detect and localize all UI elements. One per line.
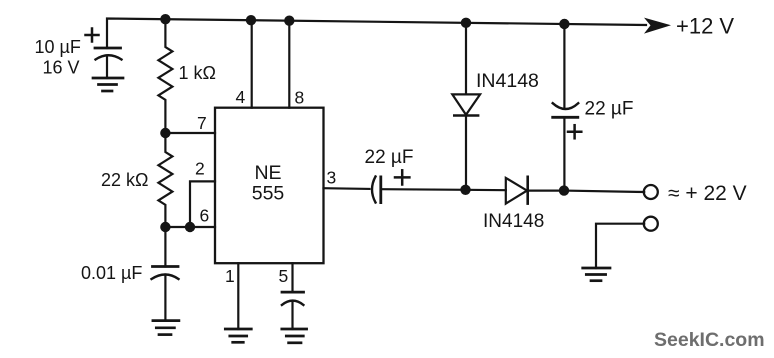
svg-text:IN4148: IN4148 (476, 70, 539, 92)
ground (93, 78, 123, 91)
wire pin 4 (251, 20, 253, 107)
ground (282, 329, 307, 343)
svg-text:22 µF: 22 µF (365, 147, 414, 168)
svg-text:16 V: 16 V (43, 58, 80, 78)
svg-text:+12 V: +12 V (676, 14, 734, 39)
node H rail to C5 (559, 19, 569, 29)
wire top rail +12V (107, 19, 646, 49)
svg-text:3: 3 (327, 168, 337, 188)
diode D2 IN4148 horizontal (466, 177, 565, 204)
svg-text:IN4148: IN4148 (483, 211, 544, 232)
svg-text:NE: NE (254, 162, 281, 184)
resistor R1 1k (158, 19, 172, 133)
svg-text:7: 7 (197, 113, 207, 133)
svg-text:≈ + 22 V: ≈ + 22 V (668, 182, 747, 205)
svg-text:555: 555 (252, 183, 285, 205)
wire output to terminal (564, 191, 644, 192)
node pin8 rail junction (284, 16, 294, 26)
svg-text:10 µF: 10 µF (35, 37, 81, 57)
svg-text:5: 5 (279, 266, 289, 286)
wire pin 6 (165, 226, 215, 228)
node C junction R2 C2 pin6 (160, 222, 170, 232)
svg-text:22 µF: 22 µF (585, 99, 634, 120)
ground (225, 329, 251, 342)
node A top of R1 (160, 14, 170, 24)
power arrow +12V (644, 18, 671, 34)
wire pin 3 output (324, 187, 370, 190)
wire C4 to node E (381, 188, 466, 191)
wire pin 1 (237, 263, 239, 329)
wire terminal to ground (596, 224, 644, 268)
capacitor 10uF 16V (86, 29, 122, 79)
wire pin 2 (190, 181, 215, 227)
svg-text:1: 1 (225, 266, 235, 286)
node F rail to D1 (461, 18, 471, 28)
terminal ground return (644, 217, 658, 231)
capacitor C2 0.01uF (152, 227, 179, 321)
label 10 uF 16 V (35, 37, 81, 78)
svg-text:1 kΩ: 1 kΩ (179, 63, 216, 83)
node E junction diodes (460, 185, 470, 195)
wire pin 5 (291, 263, 293, 292)
wire pin 8 (288, 21, 290, 108)
svg-text:4: 4 (236, 87, 246, 107)
svg-text:SeekIC.com: SeekIC.com (654, 329, 765, 351)
svg-text:8: 8 (295, 88, 305, 108)
capacitor C4 22uF series (372, 170, 409, 202)
svg-text:6: 6 (200, 206, 210, 226)
wire pin 7 (165, 132, 215, 134)
ground (583, 268, 610, 281)
node pin4 rail junction (246, 15, 256, 25)
svg-text:2: 2 (195, 159, 205, 179)
node G junction D2 C5 output (559, 185, 569, 195)
diode D1 IN4148 vertical (452, 23, 480, 190)
ground (153, 321, 179, 335)
capacitor C5 22uF output (553, 24, 582, 191)
op-amp U1 NE555 box (215, 108, 324, 264)
svg-text:0.01 µF: 0.01 µF (81, 263, 142, 283)
node B junction R1 R2 pin7 (160, 128, 170, 138)
terminal +22V output (644, 185, 658, 199)
resistor R2 22k (158, 133, 172, 227)
node D junction pin2 wire (185, 222, 195, 232)
capacitor C3 on pin 5 (282, 292, 304, 329)
svg-text:22 kΩ: 22 kΩ (101, 170, 148, 190)
label NE 555 (252, 162, 285, 205)
